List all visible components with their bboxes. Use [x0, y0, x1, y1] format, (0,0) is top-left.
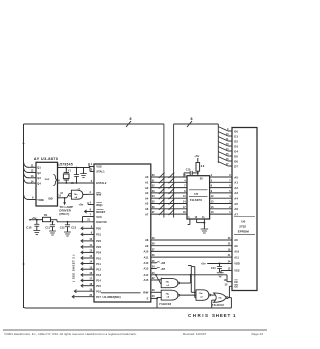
label - EPROM A0 pin name [234, 175, 238, 179]
wire - G4 lower input from E rail [212, 300, 216, 308]
wire - 8870 TONE input from bus, pin 9 [24, 194, 45, 202]
svg-text:P16: P16 [96, 290, 101, 294]
svg-text:P23: P23 [96, 245, 101, 249]
svg-text:A3: A3 [145, 191, 149, 195]
footer text [4, 332, 263, 336]
label - 8870 StD output pin [48, 196, 53, 200]
svg-text:RAM VCC: RAM VCC [96, 221, 107, 224]
wire - bus tap to EPROM D5 pin 15 [218, 152, 238, 159]
svg-text:P10: P10 [96, 256, 101, 260]
wire - U5 output 15 to EPROM A5 pin 3 [210, 201, 232, 204]
svg-text:A7: A7 [145, 212, 149, 216]
svg-text:A15: A15 [144, 278, 149, 282]
node - junction on left bus [23, 143, 25, 145]
capacitor C14 on EPROM supply [211, 263, 222, 272]
label - EPROM CE pin [224, 279, 239, 284]
svg-text:+5v: +5v [78, 203, 83, 207]
svg-text:P21: P21 [96, 233, 101, 237]
svg-text:D5: D5 [234, 154, 238, 158]
svg-text:A4: A4 [234, 197, 238, 201]
svg-text:A14: A14 [144, 273, 149, 277]
svg-text:D4: D4 [234, 149, 238, 153]
wire - left vertical data bus [23, 124, 25, 308]
svg-text:D2: D2 [234, 139, 238, 143]
wire - G3 output to G4 [211, 294, 215, 296]
svg-text:R1: R1 [44, 213, 48, 217]
svg-text:(PIN F): (PIN F) [59, 212, 69, 216]
wire - 8870 Q4 output to data bus, pin 14 [24, 178, 42, 186]
wire - U1 port pin P11 pin 14 to sheet 2 [81, 261, 101, 266]
svg-text:P22: P22 [96, 239, 101, 243]
wire - U1 port pin P15 pin 18 to sheet 2 [81, 283, 101, 288]
svg-text:A8: A8 [145, 238, 149, 242]
wire - U1 port pin P22 pin 10 to sheet 2 [81, 238, 101, 243]
svg-text:+D6: +D6 [161, 262, 166, 265]
svg-text:A6: A6 [145, 207, 149, 211]
label - EPROM A7 pin name [234, 212, 238, 216]
wire - U1 VSS pin 1 stub [89, 162, 94, 167]
wire - U5 output 19 to EPROM A7 pin 1 [210, 211, 232, 214]
svg-text:A4: A4 [145, 196, 149, 200]
svg-text:R/W: R/W [143, 291, 149, 295]
svg-text:EPROM: EPROM [238, 229, 250, 233]
label - EPROM A4 pin name [234, 197, 238, 201]
svg-text:A11: A11 [144, 255, 149, 259]
svg-text:A2: A2 [145, 186, 149, 190]
svg-text:74HC02: 74HC02 [212, 303, 224, 307]
wire - vertical bus V2 dropping to AD rows [173, 124, 175, 218]
wire - +5V to EPROM VDD pin 24 [201, 261, 240, 266]
wire - U1 AD7 pin 37 row to latch U5 with bus taps [145, 210, 187, 217]
ground - crystal circuit [80, 168, 86, 178]
wire - +5V to resistor above U5 [194, 154, 199, 162]
wire - U1 A13 pin 24 stub to +D7 [144, 266, 166, 271]
wire - U1 A8 pin 29 to EPROM pin 23 [145, 237, 238, 242]
wire - U5 LE pin 11 [202, 216, 205, 229]
svg-text:D6: D6 [234, 159, 238, 163]
wire - U1 AD2 pin 32 row to latch U5 with bus taps [145, 183, 187, 190]
svg-text:A0: A0 [145, 175, 149, 179]
svg-text:P24: P24 [96, 251, 101, 255]
capacitor C10 with ground [26, 219, 40, 235]
wire - U1 port pin P16 pin 19 to sheet 2 [74, 288, 101, 293]
gate G4 - 74HC02 NOR output enable [214, 293, 228, 302]
wire - bus tap to EPROM D1 pin 10 [218, 132, 238, 139]
wire - U1 AD5 pin 35 row to latch U5 with bus taps [145, 199, 187, 206]
label - EPROM A2 pin name [234, 186, 238, 190]
svg-text:D0: D0 [234, 129, 238, 133]
wire - 8870 Q2 output to data bus, pin 12 [24, 167, 42, 175]
ground - EPROM supply ground [217, 273, 224, 277]
wire - vertical bus V1 dropping to AD rows [163, 124, 165, 218]
svg-text:SHEET 1: SHEET 1 [212, 313, 236, 318]
wire - bus tap to EPROM D7 pin 17 [218, 162, 238, 169]
label - EPROM A6 pin name [234, 207, 238, 211]
wire - U5 output 6 to EPROM A2 pin 6 [210, 185, 232, 188]
svg-text:P12: P12 [96, 268, 101, 272]
svg-text:Revised: 10/2/07: Revised: 10/2/07 [183, 332, 206, 336]
svg-text:StD: StD [48, 196, 53, 200]
svg-text:3.579545: 3.579545 [57, 162, 73, 166]
wire - bus tap to EPROM D0 pin 9 [218, 127, 238, 134]
label - EPROM A5 pin name [234, 202, 238, 206]
wire - U1 port pin P12 pin 15 to sheet 2 [81, 266, 101, 271]
footer rule [3, 329, 267, 331]
svg-text:XTAL1: XTAL1 [96, 170, 105, 174]
wire - U5 output 16 to EPROM A6 pin 2 [210, 206, 232, 209]
label - crystal frequency 3.579545 [57, 162, 73, 166]
wire - bottom E rail [24, 306, 232, 308]
wire - U1 AD0 pin 30 row to latch U5 with bus taps [145, 172, 187, 179]
svg-text:8: 8 [130, 117, 132, 121]
svg-text:P15: P15 [96, 284, 101, 288]
wire - U1 port pin P20 pin 8 to sheet 2 [81, 225, 101, 230]
svg-text:D1: D1 [234, 134, 238, 138]
svg-text:C10: C10 [26, 225, 32, 229]
svg-text:AY U3-8870: AY U3-8870 [34, 156, 58, 161]
capacitor C - crystal load 20pF [71, 167, 79, 185]
wire - U1 AD4 pin 34 row to latch U5 with bus taps [145, 194, 187, 201]
svg-text:Q2: Q2 [37, 171, 41, 175]
svg-text:CE: CE [234, 280, 238, 284]
svg-text:6.8: 6.8 [201, 165, 205, 168]
svg-text:D7: D7 [234, 164, 238, 168]
svg-text:VDD: VDD [234, 262, 240, 266]
svg-text:A10: A10 [144, 250, 149, 254]
label - pin 21 RAM VCC [87, 219, 90, 222]
svg-text:P11: P11 [96, 262, 101, 266]
gate G3 - 74HC08 AND combining [196, 290, 211, 301]
svg-text:A5: A5 [234, 202, 238, 206]
label - TO LAMP DRIVER (PIN F) [59, 205, 73, 216]
svg-text:A1: A1 [145, 181, 149, 185]
wire - bus tap to EPROM D2 pin 11 [218, 137, 238, 144]
svg-text:P20: P20 [96, 227, 101, 231]
svg-text:U5: U5 [194, 192, 198, 196]
wire - U1 port pin P24 pin 12 to sheet 2 [81, 250, 101, 255]
wire - U1 R/W pin 39 to gate U4b input [143, 289, 161, 294]
label - EPROM OE pin [225, 283, 239, 288]
svg-text:+D7: +D7 [161, 268, 166, 271]
wire - U1 A15 pin 22 to gate input [144, 277, 162, 284]
crystal Y1 [63, 167, 71, 183]
wire - U1 port pin P23 pin 11 to sheet 2 [81, 244, 101, 249]
wire - U1 AD1 pin 31 row to latch U5 with bus taps [145, 178, 187, 185]
wire - G1 output up to select line [180, 274, 192, 283]
svg-text:A5: A5 [145, 202, 149, 206]
wire - G4 output up to EPROM OE pin 20 [228, 286, 232, 308]
svg-text:NMI: NMI [96, 193, 101, 197]
svg-text:+5v: +5v [194, 154, 199, 158]
svg-text:TONE: TONE [37, 199, 44, 202]
svg-text:A1: A1 [234, 181, 238, 185]
svg-text:U6: U6 [241, 219, 245, 223]
svg-text:RESET: RESET [96, 210, 105, 214]
svg-text:A2: A2 [234, 186, 238, 190]
resistor R1 [43, 213, 51, 222]
wire - U1 port pin P21 pin 9 to sheet 2 [81, 232, 101, 237]
svg-text:VSS: VSS [96, 165, 102, 169]
wire - EPROM VSS pin 12 to ground [221, 268, 240, 273]
svg-text:Page 23: Page 23 [251, 332, 263, 336]
label - 74HC02 under gate [212, 303, 224, 307]
capacitor C11 with ground [45, 221, 56, 235]
wire - U1 port pin P13 pin 16 to sheet 2 [81, 272, 101, 277]
wire - G2 output to gate G3 [180, 294, 196, 296]
svg-text:A7: A7 [234, 212, 238, 216]
svg-text:( SEE SHEET 2 ): ( SEE SHEET 2 ) [72, 254, 76, 281]
wire - U5 output 9 to EPROM A3 pin 5 [210, 190, 232, 193]
address latch U5 74LS373 body [187, 176, 210, 219]
svg-text:74LS373: 74LS373 [190, 198, 203, 202]
capacitor C15 on U5 supply [184, 168, 198, 177]
wire - gate output to U1 NMI pin 4 [83, 190, 94, 195]
wire - U5 output 5 to EPROM A1 pin 7 [210, 179, 232, 182]
wire - U1 port pin P17 pin 20 to sheet 2 [72, 294, 101, 299]
svg-text:OE: OE [234, 285, 238, 289]
svg-text:Q3: Q3 [37, 176, 41, 180]
wire - bus tap to EPROM D6 pin 16 [218, 157, 238, 164]
wire - U1 port pin P10 pin 13 to sheet 2 [81, 255, 101, 260]
svg-text:A13: A13 [144, 267, 149, 271]
wire - U1 A10 pin 27 to EPROM pin 19 [144, 248, 240, 253]
svg-text:EXTAL2: EXTAL2 [96, 181, 107, 185]
svg-text:C13: C13 [71, 226, 76, 230]
svg-text:A9: A9 [145, 244, 149, 248]
svg-text:A12: A12 [144, 261, 149, 265]
wire - bus tap to EPROM D4 pin 14 [218, 147, 238, 154]
wire - U1 A12 pin 25 stub to +D6 [144, 260, 166, 265]
wire - +5V supply rail [29, 216, 94, 222]
svg-text:8: 8 [191, 117, 193, 121]
label - U1 left pin names [96, 165, 107, 224]
svg-text:C12: C12 [60, 226, 65, 230]
svg-text:+5v: +5v [201, 262, 206, 266]
wire - +5V pullup to U1 IRQ1 pin 5 [78, 201, 94, 206]
svg-text:2732: 2732 [239, 224, 246, 228]
gate G1 - 74HC08 AND for address decode [161, 278, 179, 287]
svg-text:A0: A0 [234, 175, 238, 179]
svg-text:A11: A11 [234, 255, 239, 259]
gate U4 - StD buffer to NMI [69, 188, 83, 200]
wire - RESET input pin 6 [85, 207, 95, 213]
svg-text:D3: D3 [234, 144, 238, 148]
wire - data bus upper-right horizontal run to EPROM [174, 123, 219, 125]
wire - U1 A14 pin 23 long select line to EPROM CE [144, 272, 232, 282]
svg-text:C11: C11 [45, 226, 50, 230]
wire - A14 tap into gate input [155, 274, 163, 280]
wire - VCC pin 7 branch to +5 rail [82, 212, 94, 222]
svg-text:E: E [147, 297, 149, 301]
gate G2 - 74HC08 AND for read strobe [161, 290, 179, 300]
label - EPROM A1 pin name [234, 181, 238, 185]
wire - U5 GND pin 10 to ground [195, 216, 205, 223]
svg-text:A6: A6 [234, 207, 238, 211]
wire - U1 E clock pin 40 branch to rail and gate [147, 295, 162, 308]
wire - U1 A11 pin 26 to EPROM pin 21 [144, 254, 240, 259]
EPROM U6 2732 body [232, 128, 257, 291]
svg-text:74HC08: 74HC08 [159, 302, 171, 306]
svg-text:A3: A3 [234, 191, 238, 195]
wire - control vertical B into G3 input 2 [192, 267, 196, 298]
label - EPROM A3 pin name [234, 191, 238, 195]
svg-text:VCC: VCC [96, 215, 102, 219]
label - handwritten CHRIS SHEET 1 [188, 313, 236, 318]
wire - bus tap to EPROM D3 pin 13 [218, 142, 238, 149]
svg-text:Q1: Q1 [37, 166, 41, 170]
node - junction on left bus lower [23, 263, 25, 265]
wire - data bus top-left horizontal run [24, 123, 164, 125]
svg-text:A10: A10 [234, 250, 239, 254]
wire - vertical bus V3 feeding EPROM data pins [217, 124, 219, 163]
svg-text:A9: A9 [234, 244, 238, 248]
wire - U1 AD6 pin 36 row to latch U5 with bus taps [145, 204, 187, 211]
label - 74HC08 under gates [159, 302, 171, 306]
svg-text:P13: P13 [96, 273, 101, 277]
wire - U1 port pin P14 pin 17 to sheet 2 [81, 278, 101, 283]
label - 8870 oscillator pins OSC brace [45, 175, 58, 186]
wire - bus width slash marker 8 (right bus) [187, 117, 193, 127]
wire - U5 output 12 to EPROM A4 pin 4 [210, 195, 232, 198]
wire - U1 AD3 pin 33 row to latch U5 with bus taps [145, 188, 187, 195]
wire - OSC1 line from 8870 pin 7 to U1 XTAL1 pin 2 [58, 163, 95, 171]
label - (SEE SHEET 2) vertical note [72, 254, 76, 281]
svg-text:P14: P14 [96, 279, 101, 283]
wire - U5 output enable pin 1 stub [188, 216, 191, 225]
svg-text:U1-6803(MC): U1-6803(MC) [103, 295, 121, 299]
capacitor C12 C13 with ground [60, 221, 77, 236]
DTMF decoder U3 MT-8870 body [34, 156, 58, 206]
resistor - 6.8K pullup for U5 [196, 163, 205, 172]
svg-text:©2004 Hawktronics, Inc., Hilli: ©2004 Hawktronics, Inc., Hillier NY, USA… [4, 332, 137, 336]
microprocessor U1 6803 body [94, 164, 151, 302]
wire - resistor bottom node into U5 VCC pin 20 [197, 171, 199, 176]
wire - bus width slash marker 8 (left bus) [126, 117, 132, 127]
svg-text:Q4: Q4 [37, 181, 41, 185]
svg-text:CHRIS: CHRIS [188, 313, 210, 318]
svg-text:IRQ1: IRQ1 [96, 203, 103, 207]
svg-text:C15: C15 [186, 168, 191, 171]
svg-text:osc: osc [45, 178, 50, 181]
wire - branch arrow to lamp driver [64, 197, 66, 205]
ground - U5 supply ground [201, 229, 208, 233]
svg-text:A8: A8 [234, 238, 238, 242]
wire - 8870 Q3 output to data bus, pin 13 [24, 173, 42, 181]
wire - 8870 StD pin 15 to gate input bubble [58, 192, 69, 198]
wire - control vertical A into G3 input 1 [188, 266, 196, 293]
svg-text:VSS: VSS [234, 269, 239, 273]
wire - U1 A9 pin 28 to EPROM pin 22 [145, 243, 238, 248]
wire - OSC2 line from 8870 pin 8 to U1 EXTAL2 pin 3 [58, 179, 95, 184]
svg-text:P17: P17 [96, 295, 101, 299]
wire - 8870 Q1 output to data bus, pin 11 [24, 162, 42, 170]
svg-text:C14: C14 [211, 267, 216, 270]
wire - U5 output 2 to EPROM A0 pin 8 [210, 174, 232, 177]
